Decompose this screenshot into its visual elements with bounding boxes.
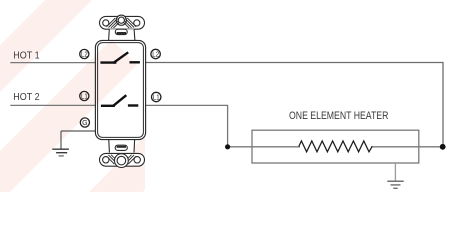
wire L1 right down to node A [146,105,228,146]
node B junction dot [440,144,446,150]
ground symbol right [387,181,403,188]
resistor heating element [299,141,372,152]
strap hatch bottom right [123,155,136,164]
wire heater ground stem [394,163,396,181]
wire heater box to node B [371,146,443,148]
watermark stripe bottom [89,136,145,192]
strap bottom mounting holes [103,157,141,163]
terminal L1 right [152,92,161,101]
switch body outer [95,40,145,139]
terminal L1 left [80,91,89,100]
svg-text:L1: L1 [153,95,160,102]
terminal G left [80,118,89,127]
switch body inner paddle [98,43,144,138]
svg-text:L2: L2 [81,52,88,59]
strap slot bottom [115,145,127,150]
wire ground G horizontal [61,130,96,132]
terminal L2 left [80,49,89,58]
wire ground G vertical [60,131,62,149]
strap slot top thick edge [117,32,126,34]
svg-text:HOT 2: HOT 2 [13,92,40,103]
strap bottom screw head [115,154,129,168]
heater box [252,130,419,163]
strap bottom bar [100,153,145,166]
terminal L2 right [151,49,160,58]
svg-text:L2: L2 [152,52,159,59]
wire L2 right to heater (top run) [146,63,444,147]
switch pole 2 symbol [101,95,138,106]
ground symbol left [52,149,69,156]
svg-text:HOT 1: HOT 1 [13,51,40,62]
switch mounting strap top [100,15,145,29]
strap top mounting holes [103,17,140,26]
strap neck top [109,29,135,41]
svg-text:G: G [82,120,87,127]
svg-text:ONE ELEMENT HEATER: ONE ELEMENT HEATER [289,110,389,122]
watermark stripe mid-left [0,40,137,193]
wire node A to heater box [228,146,300,148]
switch mounting strap bottom [109,140,135,153]
strap slot top [115,29,127,34]
svg-text:L1: L1 [81,94,88,101]
strap slot bottom thick edge [117,146,126,148]
strap hatch bottom left [107,155,120,164]
strap hatch top right [122,18,137,28]
node A junction dot [225,144,230,149]
watermark stripe top-left [0,0,92,92]
wire HOT2 feed [10,104,95,106]
switch pole 1 symbol [100,52,139,63]
wire HOT1 feed [10,62,95,64]
strap hatch top left [107,18,122,28]
